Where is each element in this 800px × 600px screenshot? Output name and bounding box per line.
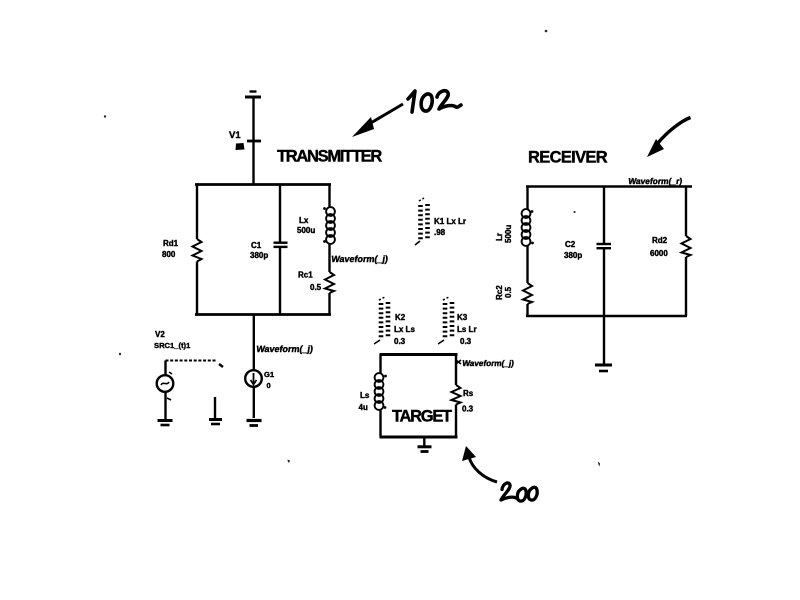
wire target left upper xyxy=(379,355,381,375)
svg-text:G1: G1 xyxy=(264,370,275,379)
wire target right upper xyxy=(455,355,457,386)
label K2 xyxy=(395,313,406,322)
wire receiver middle lower xyxy=(603,247,605,316)
label G1 xyxy=(264,370,275,379)
value label of V1 xyxy=(236,143,245,150)
speck xyxy=(288,460,291,464)
phase dot of Lr top xyxy=(531,210,534,213)
ground target xyxy=(418,447,432,452)
label Rs xyxy=(463,389,474,398)
wire transmitter bottom to G1 xyxy=(253,315,255,371)
svg-text:SRC1_(t)1: SRC1_(t)1 xyxy=(154,341,191,350)
node label Waveform(_r) xyxy=(628,176,683,186)
target box bottom wire xyxy=(380,436,458,439)
label V2 xyxy=(155,330,165,339)
value label 4u xyxy=(359,403,368,412)
svg-text:C1: C1 xyxy=(251,241,262,250)
label Ls Lr xyxy=(457,325,477,334)
resistor Rs xyxy=(452,385,461,405)
handwritten label 102 xyxy=(408,91,461,112)
wire receiver middle upper xyxy=(603,187,605,244)
handwritten arrow to receiver xyxy=(647,118,691,158)
label Rc1 xyxy=(298,271,322,293)
wire middle branch lower xyxy=(279,247,281,315)
svg-text:V2: V2 xyxy=(155,330,165,339)
label Rc2 0.5 rotated xyxy=(495,285,513,300)
wire receiver left upper xyxy=(526,187,528,211)
standalone ground xyxy=(209,397,222,424)
svg-text:Lx Ls: Lx Ls xyxy=(394,325,415,334)
svg-text:Rc1: Rc1 xyxy=(298,271,313,280)
label Rd1 xyxy=(162,239,179,259)
receiver box top wire xyxy=(526,185,692,188)
speck xyxy=(598,462,600,467)
wire V2 to ground xyxy=(166,392,172,419)
capacitor C1 xyxy=(274,243,288,247)
label Rd2 xyxy=(650,236,668,258)
svg-text:RECEIVER: RECEIVER xyxy=(528,149,608,167)
label C2 xyxy=(564,240,582,260)
handwritten arrow to transmitter xyxy=(352,104,403,137)
resistor Rc1 xyxy=(325,272,334,293)
label K3 xyxy=(457,313,468,322)
source V2 circle xyxy=(157,372,174,392)
svg-text:Waveform(_j): Waveform(_j) xyxy=(462,359,515,368)
speck xyxy=(119,353,121,355)
label Lx Ls xyxy=(394,325,415,334)
wire receiver left middle xyxy=(526,245,528,283)
node label Waveform(_j) transmitter xyxy=(331,254,389,264)
value label .98 xyxy=(434,228,446,237)
label Lr 500u rotated xyxy=(495,225,513,243)
svg-text:500u: 500u xyxy=(504,225,513,243)
value label 0.3 of Rs xyxy=(462,405,474,414)
wire receiver right lower xyxy=(685,257,687,316)
transmitter box top wire xyxy=(195,183,331,186)
wire right branch middle xyxy=(328,244,330,273)
svg-text:380p: 380p xyxy=(564,251,582,260)
wire G1 to ground xyxy=(253,387,255,418)
wire right branch upper xyxy=(328,184,330,208)
wire target ground stub xyxy=(423,437,425,446)
svg-text:0.5: 0.5 xyxy=(504,286,513,298)
receiver box bottom wire xyxy=(526,315,687,318)
coupling K2 symbol xyxy=(374,297,388,344)
svg-text:800: 800 xyxy=(162,250,176,259)
speck xyxy=(104,115,106,117)
phase dot of Ls bottom xyxy=(384,406,387,409)
resistor Rc2 xyxy=(523,283,532,304)
resistor Rd1 xyxy=(193,239,202,262)
phase dot of Lr bottom xyxy=(531,242,534,245)
svg-text:K2: K2 xyxy=(395,313,406,322)
wire V2 vertical xyxy=(164,361,166,376)
wire middle branch upper xyxy=(279,184,281,243)
label K1 Lx Lr xyxy=(434,217,466,226)
ground receiver xyxy=(595,365,612,371)
svg-text:Ls: Ls xyxy=(360,391,370,400)
svg-text:C2: C2 xyxy=(565,240,576,249)
wire receiver left lower xyxy=(526,304,528,316)
wire right branch lower xyxy=(328,293,330,315)
svg-text:Ls Lr: Ls Lr xyxy=(457,325,477,334)
arrow tick at wire end xyxy=(219,364,223,367)
svg-text:K1 Lx Lr: K1 Lx Lr xyxy=(434,217,466,226)
node label Waveform(_j) target xyxy=(456,359,515,368)
wire V2 horizontal dashed xyxy=(166,360,217,362)
capacitor C2 xyxy=(597,244,612,248)
handwritten arrow to target xyxy=(462,446,497,482)
svg-text:Waveform(_j): Waveform(_j) xyxy=(256,344,314,354)
label Lx xyxy=(297,216,315,235)
coupling K1 symbol xyxy=(415,198,428,245)
svg-text:0.3: 0.3 xyxy=(462,405,474,414)
speck xyxy=(573,211,575,213)
svg-text:Rc2: Rc2 xyxy=(495,285,504,300)
wire receiver right upper xyxy=(685,187,687,237)
transmitter box bottom wire xyxy=(195,313,331,316)
svg-text:0.3: 0.3 xyxy=(394,337,406,346)
phase dot of Lx bottom xyxy=(323,240,326,243)
svg-text:4u: 4u xyxy=(359,403,368,412)
svg-text:0.5: 0.5 xyxy=(310,283,322,292)
ground V2 xyxy=(158,421,173,426)
svg-text:Waveform(_r): Waveform(_r) xyxy=(628,176,683,186)
inductor Ls xyxy=(375,373,384,410)
wire target right lower xyxy=(455,405,457,438)
svg-text:.98: .98 xyxy=(434,228,446,237)
label TRANSMITTER xyxy=(277,148,382,166)
value label 0.3 of K2 xyxy=(394,337,406,346)
label C1 xyxy=(250,241,268,260)
svg-text:Rs: Rs xyxy=(463,389,474,398)
svg-text:TARGET: TARGET xyxy=(392,408,452,426)
resistor Rd2 xyxy=(682,236,691,257)
wire receiver ground stub xyxy=(603,316,605,364)
label RECEIVER xyxy=(528,149,608,167)
svg-text:K3: K3 xyxy=(457,313,468,322)
speck xyxy=(545,30,548,33)
svg-text:Rd2: Rd2 xyxy=(652,236,668,245)
inductor Lr xyxy=(522,209,531,246)
value label 0 of G1 xyxy=(267,381,271,390)
wire left branch lower xyxy=(196,262,198,316)
coupling K3 symbol xyxy=(438,297,452,344)
battery V1 xyxy=(245,92,261,142)
svg-text:Lr: Lr xyxy=(495,233,504,241)
wire from V1 to transmitter box top xyxy=(252,141,254,185)
value label 0.3 of K3 xyxy=(460,337,472,346)
phase dot of Lx top xyxy=(323,207,326,210)
phase dot of Ls top xyxy=(384,375,387,378)
svg-text:Lx: Lx xyxy=(299,216,309,225)
ground G1 xyxy=(247,421,262,426)
svg-text:380p: 380p xyxy=(250,251,268,260)
label Ls xyxy=(360,391,370,400)
inductor Lx xyxy=(326,207,335,244)
node label Waveform(_j) lower xyxy=(256,344,314,354)
label V1 xyxy=(229,130,241,141)
wire target left lower xyxy=(379,409,381,437)
svg-text:Waveform(_j): Waveform(_j) xyxy=(331,254,389,264)
svg-text:0.3: 0.3 xyxy=(460,337,472,346)
svg-text:TRANSMITTER: TRANSMITTER xyxy=(277,148,382,166)
label TARGET xyxy=(392,408,452,426)
label SRC1_(t)1 xyxy=(154,341,191,350)
svg-text:6000: 6000 xyxy=(650,249,668,258)
target box top wire xyxy=(380,353,458,356)
svg-text:Rd1: Rd1 xyxy=(163,239,179,248)
svg-text:500u: 500u xyxy=(297,226,315,235)
source G1 circle with arrow xyxy=(245,370,262,387)
svg-text:V1: V1 xyxy=(229,130,241,141)
handwritten label 200 xyxy=(501,483,537,501)
svg-text:0: 0 xyxy=(267,381,271,390)
wire left branch upper xyxy=(196,184,198,239)
